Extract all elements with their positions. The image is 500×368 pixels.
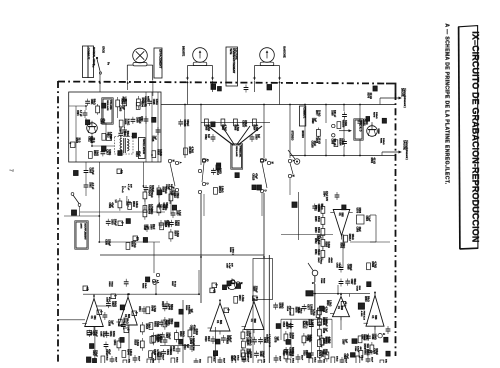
label C571 value — [121, 186, 126, 193]
svg-text:100µF: 100µF — [375, 348, 378, 355]
svg-text:4.7 µF: 4.7 µF — [79, 110, 82, 117]
svg-text:C525: C525 — [162, 202, 165, 208]
component R553 bias trap — [267, 85, 272, 90]
label C528 col — [266, 334, 271, 348]
wire cluster wiring — [80, 162, 171, 242]
label EFFACEMENT — [154, 48, 162, 78]
svg-text:1µF: 1µF — [146, 225, 149, 230]
label R598 — [90, 138, 95, 144]
svg-text:10kΩ: 10kΩ — [212, 356, 214, 362]
component R576 body — [373, 86, 377, 91]
capacitor C570b — [340, 357, 347, 368]
svg-text:120µF: 120µF — [102, 331, 104, 338]
svg-text:33nF: 33nF — [137, 356, 139, 362]
resistor R524 — [163, 317, 172, 330]
resistor R562b — [123, 359, 129, 368]
svg-text:3.9kΩ: 3.9kΩ — [310, 320, 313, 327]
component part x218 — [216, 165, 220, 170]
svg-text:47µF: 47µF — [254, 173, 257, 179]
resistor R593 — [116, 97, 126, 110]
component C587 — [366, 117, 370, 122]
resistor R596 — [367, 261, 377, 269]
label C5107 — [241, 120, 247, 128]
svg-text:R564: R564 — [246, 340, 249, 346]
pin T51 — [107, 135, 112, 141]
label GAUCHE — [283, 46, 287, 58]
component R598 — [367, 282, 371, 287]
svg-text:R6: R6 — [120, 170, 124, 174]
svg-text:R518: R518 — [134, 340, 136, 346]
op-amp A566 record amp R — [330, 293, 350, 321]
component R534 — [126, 219, 130, 224]
capacitor C585 — [284, 347, 295, 354]
svg-text:120Ω: 120Ω — [365, 119, 368, 125]
svg-text:33nF: 33nF — [207, 336, 209, 342]
label Fer — [92, 64, 94, 68]
svg-text:C582: C582 — [204, 134, 206, 140]
wire centre v x201 — [200, 194, 202, 303]
svg-text:R548: R548 — [150, 305, 153, 311]
label C539 — [108, 320, 114, 326]
svg-text:C555: C555 — [190, 325, 193, 331]
svg-text:R565: R565 — [205, 125, 208, 131]
wire lower horizontal rail — [290, 155, 395, 157]
svg-text:C535: C535 — [105, 239, 108, 245]
svg-text:C549: C549 — [167, 304, 170, 310]
wire bottom v x199 — [198, 270, 200, 294]
svg-text:56kΩ: 56kΩ — [320, 204, 323, 210]
svg-text:C569: C569 — [259, 351, 262, 357]
op-amp A564 line amp R — [242, 298, 265, 334]
frame top-right corner — [386, 84, 396, 94]
label C514 — [286, 306, 292, 316]
junction oscillator joints — [85, 104, 153, 156]
svg-text:C5101: C5101 — [362, 119, 365, 127]
resistor R584 — [320, 337, 330, 345]
resistor R546 — [114, 198, 122, 211]
wire bias rail y122 — [201, 121, 270, 123]
component R514 — [132, 133, 136, 138]
svg-text:SOUFFLEMENT: SOUFFLEMENT — [83, 223, 85, 240]
svg-text:470kΩ: 470kΩ — [319, 258, 322, 265]
component trimmer T591 — [102, 146, 107, 151]
component R570 — [236, 284, 240, 289]
resistor R594 — [137, 96, 146, 109]
svg-text:R5108: R5108 — [188, 146, 191, 154]
svg-text:LECTURE: LECTURE — [235, 48, 238, 60]
resistor R572b — [380, 359, 386, 368]
switch contact SW1a — [168, 159, 173, 162]
wire bottom v x129 — [128, 325, 130, 363]
svg-text:DROITE: DROITE — [182, 46, 186, 56]
capacitor C577 — [302, 304, 313, 311]
capacitor C589 — [366, 334, 377, 341]
svg-text:C530: C530 — [322, 328, 324, 334]
wire bottom v x95 — [94, 327, 96, 363]
svg-text:1µF: 1µF — [154, 136, 157, 141]
svg-text:R592: R592 — [363, 349, 366, 355]
label C555 — [190, 325, 196, 331]
svg-text:C585: C585 — [288, 347, 291, 353]
svg-text:C594: C594 — [323, 191, 326, 197]
svg-text:56kΩ: 56kΩ — [291, 347, 294, 353]
svg-text:R530: R530 — [246, 331, 248, 337]
svg-text:C559: C559 — [189, 338, 192, 344]
svg-text:2.2kΩ: 2.2kΩ — [136, 340, 138, 346]
label R528b — [108, 281, 113, 287]
svg-text:R577: R577 — [315, 110, 317, 116]
svg-text:170+Ω: 170+Ω — [121, 186, 123, 193]
svg-text:R544: R544 — [126, 349, 129, 355]
svg-text:120Ω: 120Ω — [176, 220, 179, 226]
page number 7 — [8, 169, 14, 172]
capacitor C555 head cap — [244, 85, 249, 93]
svg-text:C529: C529 — [322, 349, 324, 355]
label C559 — [189, 338, 195, 345]
capacitor C503 — [159, 220, 169, 228]
resistor R556 — [150, 335, 160, 343]
component R578 — [320, 306, 324, 311]
svg-text:10kΩ: 10kΩ — [125, 318, 128, 324]
label C585 — [100, 331, 107, 338]
svg-text:C500: C500 — [150, 224, 152, 230]
svg-text:220µF: 220µF — [107, 239, 110, 246]
label C511 — [87, 136, 93, 143]
svg-text:100µF: 100µF — [138, 117, 141, 124]
wire main horizontal rail — [161, 104, 395, 106]
wire centre v x154 — [153, 242, 155, 273]
svg-text:R581: R581 — [379, 138, 381, 144]
svg-text:10kΩ: 10kΩ — [297, 307, 300, 313]
component R586 — [307, 353, 311, 358]
svg-text:100µF: 100µF — [324, 320, 327, 327]
svg-text:C599: C599 — [311, 118, 314, 124]
label 16V marks — [127, 184, 132, 191]
svg-text:100µF: 100µF — [151, 185, 154, 192]
resistor R516 — [88, 150, 98, 158]
label C586c — [356, 227, 362, 233]
svg-text:100µF: 100µF — [262, 351, 265, 358]
svg-text:0.47µF: 0.47µF — [91, 168, 94, 176]
svg-text:4.7kΩ: 4.7kΩ — [191, 146, 194, 153]
label C515 — [151, 136, 157, 142]
capacitor C594 — [76, 110, 87, 118]
label R578 — [315, 138, 320, 144]
capacitor C500 — [145, 224, 155, 232]
svg-text:R527: R527 — [171, 281, 173, 287]
label U410 — [356, 286, 361, 292]
svg-text:C507: C507 — [226, 263, 228, 269]
svg-text:220µF: 220µF — [255, 286, 258, 293]
svg-text:4.7kΩ: 4.7kΩ — [236, 125, 239, 132]
svg-text:C5105: C5105 — [183, 119, 186, 127]
svg-text:4.7kΩ: 4.7kΩ — [374, 261, 377, 268]
svg-text:C575: C575 — [274, 337, 277, 343]
capacitor C563b — [157, 354, 164, 366]
wire bottom edge bus — [90, 354, 340, 356]
svg-text:47µF: 47µF — [313, 141, 316, 147]
capacitor Cg2 — [303, 322, 314, 330]
svg-text:R560: R560 — [153, 349, 156, 355]
label C547 — [92, 350, 98, 357]
pin P-r1 — [341, 301, 348, 306]
component C593 body — [74, 171, 79, 176]
capacitor C583 — [250, 134, 260, 142]
resistor R521 — [188, 327, 197, 340]
svg-text:4.7kΩ: 4.7kΩ — [156, 349, 159, 356]
capacitor C512 — [169, 346, 180, 354]
capacitor C529 — [169, 220, 180, 227]
label C527 — [143, 225, 149, 231]
svg-text:4.7kΩ: 4.7kΩ — [312, 309, 315, 315]
component R542 — [120, 337, 124, 342]
svg-text:C588: C588 — [331, 139, 333, 145]
resistor Rg1 — [284, 331, 293, 344]
capacitor C597 — [345, 279, 356, 286]
resistor R5108 — [184, 146, 194, 154]
svg-text:4.7kΩ: 4.7kΩ — [255, 125, 258, 132]
capacitor C520 — [204, 336, 215, 344]
label R568b — [229, 247, 234, 255]
pin P-1c — [253, 296, 260, 301]
label C594b — [323, 191, 329, 201]
svg-text:R564: R564 — [253, 125, 256, 131]
svg-text:33nF: 33nF — [222, 358, 224, 363]
label cl5 texts — [326, 300, 331, 306]
label top small values — [144, 96, 149, 102]
label C549 — [320, 278, 326, 284]
svg-text:C581: C581 — [322, 320, 325, 326]
svg-text:4.7kΩ: 4.7kΩ — [325, 307, 328, 313]
capacitor C569 — [254, 351, 265, 358]
resistor R547 — [143, 189, 153, 202]
svg-text:TETE: TETE — [229, 48, 232, 55]
resistor Rg5 — [318, 349, 329, 362]
resistor R536 — [126, 241, 136, 249]
component U573 box — [357, 215, 370, 224]
component part r1 — [306, 291, 313, 296]
svg-text:C5103: C5103 — [310, 141, 313, 149]
switch contact S6b — [236, 282, 239, 285]
pin P-1a — [97, 310, 104, 315]
svg-text:R529: R529 — [326, 300, 328, 306]
svg-text:1µF: 1µF — [228, 338, 231, 343]
capacitor Cg4 — [303, 350, 314, 358]
label C599 — [311, 118, 317, 124]
capacitor C533 — [106, 219, 117, 226]
svg-text:R567: R567 — [221, 125, 224, 131]
resistor R520 — [152, 149, 162, 157]
svg-text:C589: C589 — [371, 334, 374, 340]
svg-text:POLARIS.: POLARIS. — [109, 100, 112, 110]
svg-text:R503: R503 — [142, 283, 144, 289]
resistor R5112 — [344, 234, 354, 242]
label R567 value — [234, 125, 240, 132]
switch contact SW3b — [267, 161, 272, 164]
svg-text:120Ω: 120Ω — [309, 304, 312, 310]
switch S CRO2 lever — [96, 46, 110, 81]
resistor R566 — [221, 119, 225, 126]
svg-text:10kΩ: 10kΩ — [313, 357, 315, 363]
label TETE D'ENREGISTREMENT LECTURE — [226, 47, 238, 86]
capacitor C591 — [140, 116, 149, 124]
svg-text:C516: C516 — [282, 322, 284, 328]
label U573 — [356, 208, 361, 214]
svg-text:R568: R568 — [229, 247, 231, 253]
svg-text:565: 565 — [341, 213, 344, 218]
svg-text:R588: R588 — [358, 208, 360, 214]
capacitor Cr1 — [386, 326, 391, 334]
label C591 — [343, 353, 349, 359]
svg-text:3.9kΩ: 3.9kΩ — [221, 186, 224, 193]
component R510 — [152, 117, 156, 122]
svg-text:56kΩ: 56kΩ — [367, 296, 369, 302]
label C5103 — [310, 141, 316, 149]
svg-text:C529: C529 — [318, 351, 320, 357]
svg-text:GAUCHE: GAUCHE — [283, 46, 287, 58]
svg-text:33nF: 33nF — [114, 357, 116, 363]
label R580 — [377, 129, 379, 135]
resistor R568 — [253, 119, 257, 126]
svg-text:10kΩ: 10kΩ — [105, 355, 107, 361]
svg-text:R582: R582 — [370, 158, 372, 164]
label R579 — [373, 112, 378, 119]
svg-text:R512: R512 — [106, 132, 109, 138]
svg-text:10 kΩ: 10 kΩ — [318, 138, 320, 144]
label R568 value — [253, 125, 259, 132]
capacitor C571b — [366, 356, 373, 368]
label R592b — [340, 243, 345, 249]
pin P-5b — [132, 311, 139, 316]
resistor R584 — [314, 204, 325, 217]
svg-text:C586: C586 — [356, 227, 358, 233]
svg-text:2.2kΩ: 2.2kΩ — [291, 333, 293, 339]
svg-text:C545: C545 — [92, 330, 95, 336]
resistor R565b — [208, 356, 214, 368]
svg-text:R552: R552 — [153, 321, 156, 327]
resistor R548 — [146, 305, 156, 313]
svg-text:R568: R568 — [234, 125, 237, 131]
wire right-mid verticals — [305, 98, 382, 156]
svg-text:( 1MΩ ): ( 1MΩ ) — [232, 247, 234, 255]
title box IX-CIRCUITO DE GRABACION-REPRODUCCION — [459, 26, 481, 249]
svg-text:10kΩ: 10kΩ — [360, 355, 362, 361]
capacitor C501 — [103, 312, 108, 320]
svg-text:U573: U573 — [356, 208, 358, 214]
label C507c — [226, 263, 233, 269]
pin P-3 — [118, 221, 125, 226]
switch contact bias contact A — [202, 158, 208, 161]
pin P-2b — [124, 328, 131, 333]
capacitor C549 — [162, 304, 173, 311]
svg-text:C541: C541 — [109, 331, 112, 337]
label C523 — [170, 190, 176, 197]
resistor R533b — [309, 308, 320, 321]
svg-text:566: 566 — [374, 315, 377, 320]
wire bottom h y345 — [160, 344, 200, 346]
svg-text:1kΩ: 1kΩ — [366, 344, 368, 349]
svg-text:C561: C561 — [166, 349, 169, 355]
svg-text:10kΩ: 10kΩ — [249, 340, 252, 346]
svg-text:47µF 16V: 47µF 16V — [325, 191, 328, 201]
svg-text:R580: R580 — [308, 320, 311, 326]
svg-text:REGLAGE: REGLAGE — [106, 100, 109, 111]
capacitor C561 — [161, 349, 172, 356]
label C500b — [105, 297, 111, 303]
svg-text:1µF: 1µF — [344, 339, 347, 344]
svg-text:1nF: 1nF — [207, 134, 209, 139]
transistor Q571 — [367, 124, 378, 137]
switch contact S5b — [156, 273, 159, 276]
resistor R593 trim — [96, 104, 100, 115]
wire bottom h y319 — [281, 318, 332, 320]
component R502 — [102, 103, 106, 108]
svg-text:M: M — [270, 162, 272, 164]
wire bottom v x156 — [155, 283, 157, 295]
svg-text:H: H — [382, 333, 385, 335]
svg-text:220µF: 220µF — [173, 190, 176, 197]
svg-text:REGLAGE: REGLAGE — [235, 146, 238, 157]
label C583 — [305, 335, 311, 342]
component bottom left part — [87, 357, 91, 362]
resistor R572 — [234, 295, 244, 303]
svg-text:56kΩ: 56kΩ — [182, 331, 184, 337]
svg-text:220µF: 220µF — [308, 335, 311, 342]
svg-text:1µF: 1µF — [186, 344, 188, 349]
svg-text:C513: C513 — [123, 131, 126, 137]
label C551 — [360, 334, 367, 341]
svg-text:100Ω: 100Ω — [317, 227, 319, 233]
resistor Rg2 — [302, 333, 311, 346]
svg-text:C509: C509 — [135, 117, 138, 123]
switch contact SW1b — [175, 161, 181, 164]
svg-text:100µF: 100µF — [167, 332, 170, 339]
svg-text:220µF: 220µF — [192, 338, 195, 345]
svg-text:56 kΩ: 56 kΩ — [174, 281, 176, 287]
label R596 value — [122, 97, 127, 103]
label C543 — [105, 349, 111, 355]
wire left chain — [64, 162, 99, 216]
resistor Rg3 — [320, 335, 329, 348]
pin P-3c — [224, 308, 231, 313]
resistor R588 — [358, 334, 368, 342]
svg-text:C529: C529 — [174, 220, 177, 226]
label C563 — [226, 338, 232, 344]
svg-text:GAUCHE: GAUCHE — [403, 140, 406, 150]
resistor R592 — [359, 349, 369, 357]
switch contact S8b — [237, 282, 242, 285]
wire head left down — [188, 81, 213, 105]
capacitor C557 — [160, 332, 171, 339]
svg-text:R524: R524 — [147, 204, 150, 210]
component R550 — [179, 309, 183, 314]
svg-text:R526: R526 — [185, 305, 187, 311]
component part x258 — [257, 185, 261, 190]
svg-text:0.1µF: 0.1µF — [368, 216, 370, 223]
svg-text:3.9kΩ: 3.9kΩ — [157, 335, 160, 342]
resistor R570b — [331, 356, 337, 368]
label C571 — [252, 286, 258, 293]
resistor R5104 — [334, 138, 344, 146]
svg-text:4.7kΩ: 4.7kΩ — [241, 295, 244, 302]
svg-text:COMMUT.: COMMUT. — [86, 48, 90, 60]
svg-text:( Enregistrement ): ( Enregistrement ) — [403, 88, 406, 108]
switch S592 — [71, 193, 81, 207]
component R5114 — [235, 173, 239, 178]
svg-text:C527: C527 — [143, 225, 146, 231]
svg-text:3.9kΩ: 3.9kΩ — [341, 138, 344, 145]
svg-text:PRE M.G: PRE M.G — [362, 311, 364, 321]
